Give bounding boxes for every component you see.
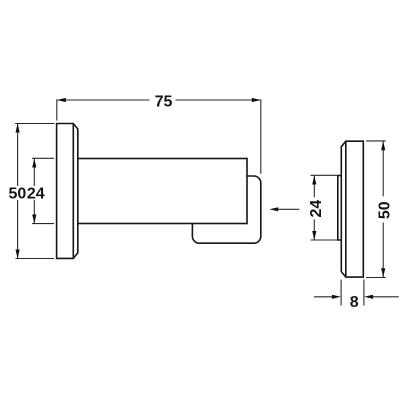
arm (horizontal bracket arm, side view): [70, 159, 247, 224]
svg-text:75: 75: [155, 94, 173, 111]
dimension 50 (edge view): [366, 141, 386, 278]
dimension 75 (overall length, top): [57, 100, 261, 174]
dimension 24 (edge view): [311, 175, 338, 240]
dimension 50 arrowheads (left): [16, 124, 20, 259]
svg-text:8: 8: [350, 294, 359, 311]
svg-text:50: 50: [377, 201, 394, 219]
wall flange (side view, chamfered front corners): [57, 124, 78, 259]
dimension 50 arrowheads (edge view): [381, 141, 385, 277]
dimension 8 (flange thickness, bottom): [314, 280, 399, 306]
arm stub (edge view): [338, 176, 342, 241]
flange chamfer edge line (edge view): [345, 142, 347, 276]
dimension 24 arrowheads (left): [32, 159, 36, 224]
flange chamfer edge line (side view): [72, 124, 74, 257]
dimension 75 arrowheads: [57, 98, 261, 102]
svg-text:24: 24: [27, 186, 45, 203]
dimension 24 arrowheads (edge view): [312, 176, 316, 241]
pointer arrow at hook tip: [269, 207, 299, 211]
hook plate (rounded end of hook, side view): [192, 176, 260, 243]
dimension 50 (flange diameter, left): [15, 124, 55, 259]
wall flange (edge view, right): [341, 141, 363, 277]
dimension 8 arrowheads: [332, 295, 373, 299]
svg-text:24: 24: [308, 200, 325, 218]
dimension 24 (arm diameter, left): [32, 158, 54, 223]
svg-text:50: 50: [9, 186, 27, 203]
